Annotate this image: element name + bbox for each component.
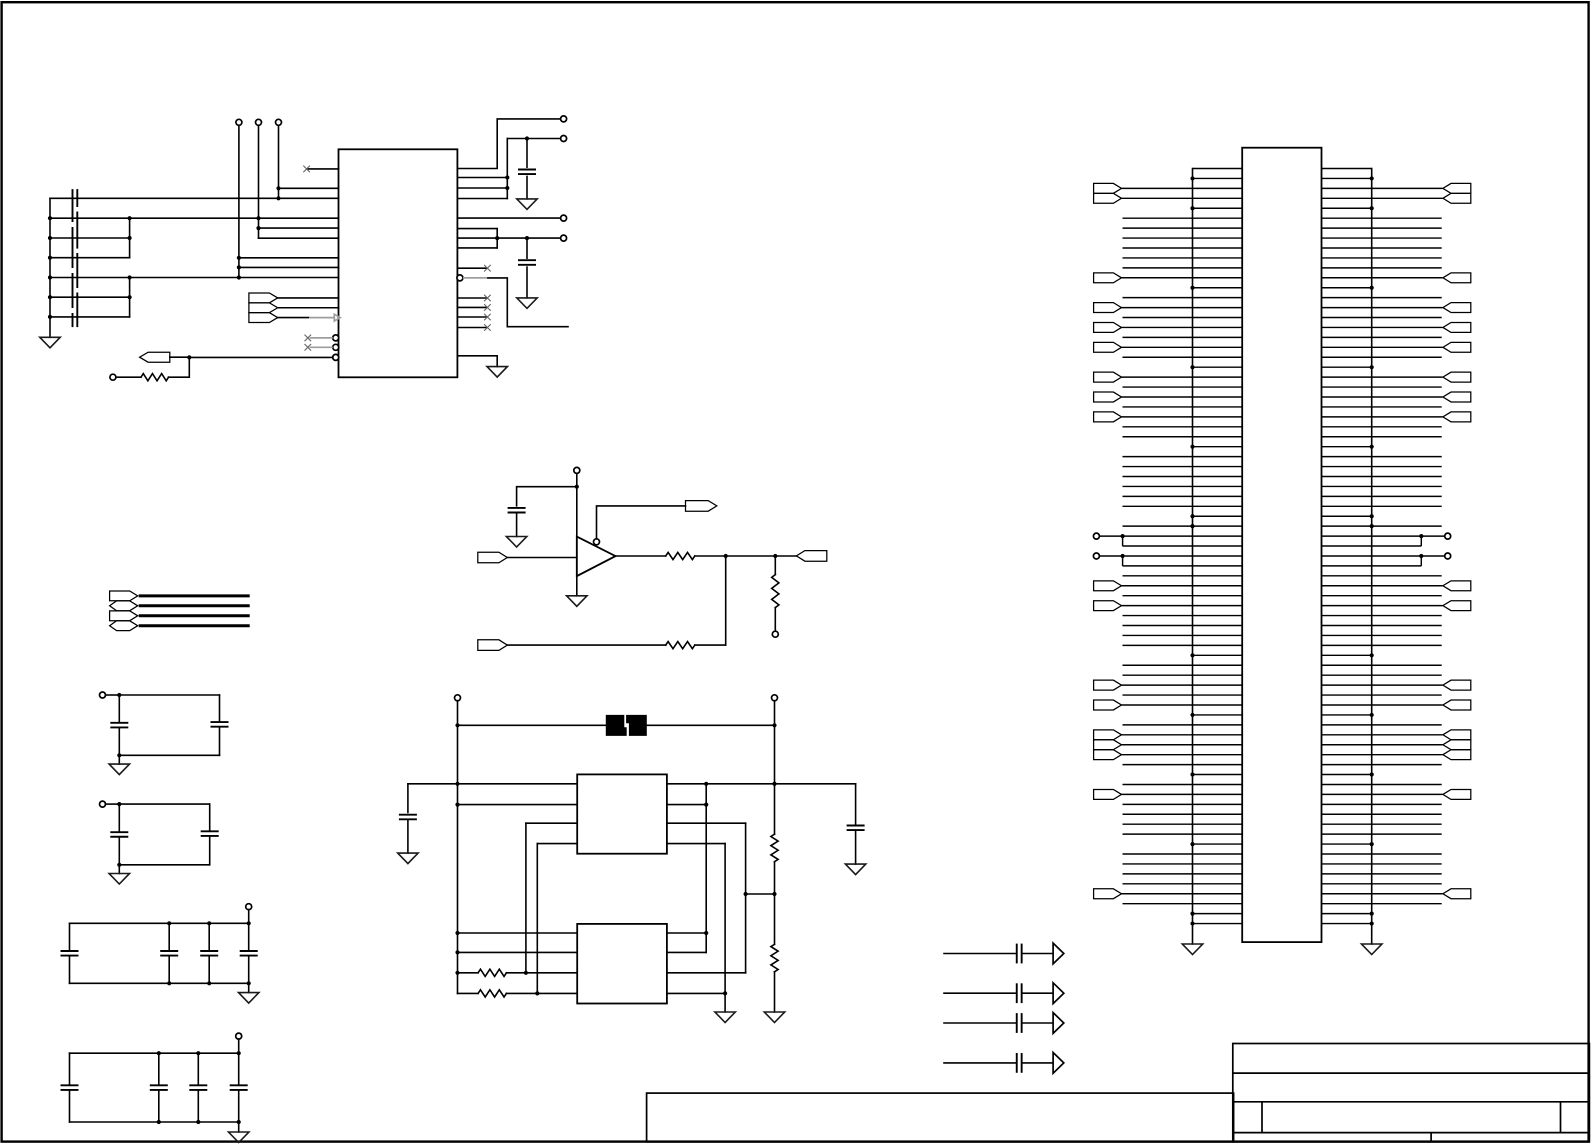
no-connect circle pin U1 left 2: [333, 344, 339, 350]
wire L2 to U1 pin: [50, 217, 339, 219]
RC block D input circle: [236, 1033, 242, 1039]
U4 row3 wire right: [667, 972, 746, 974]
wire R5 to R6: [774, 862, 776, 945]
wire R1 left: [116, 376, 141, 378]
circle pin C: [561, 215, 567, 221]
wire op-amp output: [616, 555, 666, 557]
ground under R6: [764, 1012, 784, 1023]
title block vertical b: [1560, 1102, 1562, 1133]
capacitor at x=119.3: [118, 804, 120, 832]
ground under J1 right bus: [1362, 944, 1382, 955]
U1 net B wires: [457, 177, 507, 179]
capacitor 3: [208, 923, 210, 951]
title block divider 2: [1233, 1101, 1590, 1103]
IC U1: [339, 149, 458, 377]
ground: [109, 874, 129, 885]
U1 right pin net A wires: [457, 119, 560, 169]
wire L4: [50, 257, 130, 259]
J1 right circle pins: [1445, 533, 1451, 539]
feedback bubble circle: [594, 539, 600, 545]
ground under C4: [398, 853, 418, 864]
wire tie to resistor chain: [746, 893, 775, 895]
bottom rail: [70, 982, 249, 984]
wire down to capacitor C4: [407, 784, 409, 813]
series capacitor C13: [1016, 1053, 1018, 1073]
series capacitor row 1 wire: [944, 953, 1016, 955]
J1 left pin wires: [1099, 169, 1242, 926]
circle pin below R4: [772, 631, 778, 637]
no-connect stub U1 right 4: [457, 316, 485, 318]
feedback wire to output flag: [597, 506, 686, 539]
ground: [229, 1132, 249, 1143]
capacitor 2: [168, 923, 170, 951]
capacitor C3: [508, 507, 526, 509]
input flag F3: [249, 313, 278, 323]
circle pin B: [561, 136, 567, 142]
RC block B input circle: [100, 801, 106, 807]
wire L1 to U1 pin: [50, 197, 339, 199]
U3 right pin wires: [667, 804, 706, 806]
wire grey then black from circle pin: [463, 277, 488, 279]
power circle left: [455, 695, 461, 701]
circle pin D: [561, 235, 567, 241]
capacitor 1: [69, 923, 71, 951]
RC block A input circle: [100, 692, 106, 698]
ground under J1 left bus: [1182, 944, 1202, 955]
circle pin A: [561, 116, 567, 122]
wire L5 to U1 pin: [50, 277, 339, 279]
series capacitor row 3 wire: [944, 1022, 1016, 1024]
bottom rail: [119, 754, 219, 756]
no-connect stub U1 right 1: [457, 267, 485, 269]
wire F8 to R3: [507, 644, 665, 646]
capacitor at x=119.3: [118, 695, 120, 723]
wire down to capacitor C5: [855, 784, 857, 826]
notes box: [647, 1093, 1234, 1142]
fuse FB1 black body: [606, 715, 627, 736]
no-connect circle pin U1 left 1: [333, 335, 339, 341]
power circle op-amp: [574, 467, 580, 473]
testpoint circle TP3: [276, 119, 282, 125]
J1 left ground bus: [1192, 169, 1194, 945]
U3-U4 left tie vertical 1: [525, 823, 527, 973]
U1 net D wires: [457, 228, 497, 230]
op-amp U2 triangle: [577, 537, 616, 577]
bus flag B1: [110, 591, 138, 601]
capacitor 4: [238, 1053, 240, 1085]
bus flag B3: [110, 611, 138, 621]
wire F1 to U1: [278, 297, 339, 299]
wire F4 tip: [170, 356, 190, 358]
series capacitor row 2 wire: [944, 992, 1016, 994]
ground under op-amp: [567, 596, 587, 607]
capacitor 3: [197, 1053, 199, 1085]
left vertical bus of CB1: [49, 198, 51, 337]
no-connect stub U1 right 3: [457, 306, 485, 308]
capacitor 1: [69, 1053, 71, 1085]
ground under C3: [506, 537, 526, 548]
title block divider 3: [1233, 1132, 1590, 1134]
series capacitor row 4 wire: [944, 1062, 1016, 1064]
circle pin U1 right: [457, 275, 463, 281]
series capacitor C11: [1016, 983, 1018, 1003]
capacitor C1: [526, 139, 528, 168]
wire L3: [50, 237, 130, 239]
CB1 right tie vertical lower: [129, 278, 131, 317]
right tie vertical 3: [724, 844, 726, 1012]
connector J1 body: [1242, 148, 1321, 942]
open arrow head row 3: [1053, 1013, 1064, 1034]
circle pin R1 left: [110, 374, 116, 380]
resistor R2: [666, 552, 695, 559]
open arrow head row 4: [1053, 1053, 1064, 1074]
bus thick wire 3: [139, 614, 250, 617]
power circle right: [772, 695, 778, 701]
RC block C input circle: [246, 904, 252, 910]
U4 row4 wire left with resistor R8: [478, 990, 506, 997]
right resistor chain vertical: [774, 701, 776, 835]
U1 net C wire: [457, 217, 560, 219]
wire R2 to flag F7: [695, 555, 797, 557]
resistor R6: [771, 944, 778, 972]
input flag F2: [249, 303, 278, 313]
resistor R5: [771, 834, 778, 862]
capacitor C5: [847, 825, 865, 827]
bus thick wire 4: [139, 624, 250, 627]
CB1 right tie vertical upper: [129, 218, 131, 258]
bus thick wire 1: [139, 594, 250, 597]
no-connect stub U1 right 2: [457, 297, 485, 299]
J1 left circle pins: [1093, 533, 1099, 539]
ground under C2: [517, 298, 537, 309]
long mid rail wire left: [408, 783, 577, 785]
right tie vertical 1: [705, 784, 707, 953]
long mid rail wire right: [667, 783, 856, 785]
wire R4 to circle: [774, 608, 776, 632]
capacitor at x=219.5: [219, 695, 221, 722]
resistor R4: [772, 575, 779, 608]
capacitor C4: [399, 814, 417, 816]
no-connect stub U1 right 5: [457, 327, 485, 329]
IC U4: [577, 924, 667, 1004]
wire R6 to ground: [774, 972, 776, 1012]
capacitor 4: [248, 923, 250, 951]
U4 row3 wire left with resistor R7: [478, 969, 506, 976]
capacitor bank CB1 plate lines: [72, 189, 74, 222]
U3-U4 left tie vertical 2: [536, 844, 538, 994]
circle pin U1 left 3: [333, 354, 339, 360]
output flag F4: [140, 352, 170, 362]
U3 left pin wires: [458, 804, 578, 806]
bus flag B4: [110, 621, 138, 631]
input flag F8: [478, 640, 508, 651]
resistor R3: [666, 642, 695, 649]
J1 left flags: [1094, 183, 1122, 898]
title block vertical a: [1261, 1102, 1263, 1133]
no-connect stub U1 left top: [308, 168, 339, 170]
title block divider 1: [1233, 1072, 1590, 1074]
J1 right flags: [1443, 183, 1471, 898]
input flag F1: [249, 293, 278, 303]
top rail: [70, 1052, 239, 1054]
wire R3 to vertical: [695, 644, 726, 646]
feedback vertical wire: [725, 556, 727, 645]
series capacitor C10: [1016, 944, 1018, 964]
wire F2 to U1: [278, 307, 339, 309]
right tie vertical 2: [745, 823, 747, 973]
wire to decoupling cap: [517, 487, 577, 506]
U4 row4 wire right: [667, 992, 725, 994]
resistor R1: [141, 374, 169, 381]
IC U3: [577, 774, 667, 853]
series capacitor C12: [1016, 1013, 1018, 1033]
wire F3 grey to U1 with open arrow: [278, 317, 309, 319]
bus flag B2: [110, 601, 138, 611]
TP1 net wires: [238, 125, 240, 277]
input flag F6: [478, 552, 508, 563]
ground under C5: [845, 864, 865, 875]
capacitor 2: [158, 1053, 160, 1085]
title block vertical c: [1430, 1133, 1432, 1142]
top rail wire: [458, 724, 606, 726]
J1 right pin wires: [1322, 169, 1445, 926]
output flag F5: [686, 501, 717, 512]
wire flag F4 net to U1: [189, 356, 332, 358]
bottom rail: [119, 864, 209, 866]
U4 row1 wires: [458, 932, 578, 934]
TP3 net wires: [278, 125, 280, 198]
title block outer: [1233, 1044, 1590, 1142]
output flag F7: [796, 551, 826, 562]
ground under CB1: [40, 337, 60, 348]
open arrow head row 2: [1053, 983, 1064, 1004]
wire R1 right + up: [169, 357, 190, 377]
open arrow head row 1: [1053, 943, 1064, 964]
J1 right ground bus: [1371, 169, 1373, 945]
top rail: [70, 922, 249, 924]
bus thick wire 2: [139, 604, 250, 607]
ground under U1: [487, 367, 507, 378]
testpoint circle TP2: [256, 119, 262, 125]
ground: [109, 764, 129, 775]
wire F6 to op-amp: [507, 557, 577, 559]
capacitor at x=209.7: [209, 804, 211, 831]
wire L7: [50, 316, 130, 318]
ground under C1: [517, 199, 537, 210]
ground under tie 3: [715, 1012, 735, 1023]
ground: [239, 993, 259, 1004]
wire L6: [50, 296, 130, 298]
op-amp power vertical wire: [576, 473, 578, 595]
U4 row2 wires: [458, 951, 578, 953]
left vertical rail: [457, 701, 459, 994]
wire to resistor R4: [774, 556, 776, 575]
U1 ground pin wire: [457, 356, 497, 367]
TP2 net wires: [258, 125, 260, 238]
testpoint circle TP1: [236, 119, 242, 125]
bottom rail: [70, 1121, 239, 1123]
capacitor C2: [526, 238, 528, 258]
